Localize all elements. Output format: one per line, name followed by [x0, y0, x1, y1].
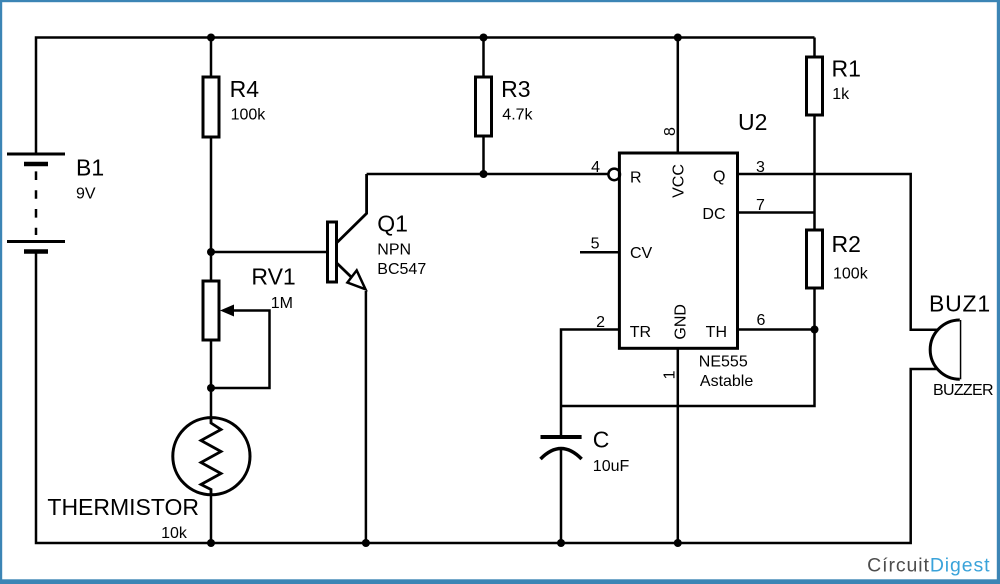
svg-text:100k: 100k — [833, 266, 869, 283]
transistor Q1 — [328, 222, 337, 282]
pin4 bubble — [608, 169, 620, 181]
potentiometer RV1 — [203, 281, 219, 340]
op-amp U2 IC box — [619, 153, 737, 348]
wire base of Q1 — [211, 251, 328, 254]
svg-text:4.7k: 4.7k — [502, 106, 533, 123]
node dot emitter bottom — [362, 539, 370, 547]
svg-text:Astable: Astable — [700, 373, 753, 390]
wire R4 bottom through node to RV1 — [210, 137, 213, 281]
svg-text:100k: 100k — [231, 107, 267, 124]
wire pin3 Q to buzzer — [738, 174, 939, 330]
wire pin6 TH — [738, 328, 815, 331]
svg-text:5: 5 — [591, 236, 600, 253]
wire R2 bottom to TR net — [561, 288, 815, 406]
wiper arrowhead — [220, 305, 234, 317]
svg-text:GND: GND — [673, 304, 690, 340]
svg-text:U2: U2 — [738, 109, 767, 135]
svg-text:1M: 1M — [271, 295, 293, 312]
node dot gnd bottom — [674, 539, 682, 547]
wire pin5 stub — [580, 251, 619, 254]
svg-text:1k: 1k — [832, 86, 850, 103]
wire R1 to R2 — [813, 115, 816, 230]
svg-text:R: R — [630, 169, 642, 186]
svg-text:1: 1 — [661, 370, 678, 379]
resistor R2 — [807, 230, 823, 288]
node dot pin6 R2 — [811, 326, 819, 334]
svg-text:CV: CV — [630, 245, 653, 262]
capacitor C — [541, 435, 582, 439]
svg-text:THERMISTOR: THERMISTOR — [47, 494, 199, 520]
svg-text:2: 2 — [596, 314, 605, 331]
svg-text:Q: Q — [713, 169, 725, 186]
wire top rail with left drop — [36, 38, 815, 155]
node dot top R4 — [207, 34, 215, 42]
thermistor — [173, 418, 250, 495]
wire thermistor bottom — [210, 495, 213, 544]
resistor R3 — [476, 77, 492, 136]
svg-text:7: 7 — [756, 197, 765, 214]
wire R4 top — [210, 38, 213, 78]
wire VCC pin8 drop — [677, 38, 680, 154]
svg-text:B1: B1 — [76, 154, 104, 180]
emitter arrowhead — [347, 270, 365, 289]
svg-text:NPN: NPN — [377, 242, 411, 259]
svg-text:TR: TR — [630, 324, 651, 341]
wire R3 top — [482, 38, 485, 78]
wire RV1 wiper loop — [211, 311, 270, 389]
resistor R1 — [807, 57, 823, 115]
node dot R3 bottom — [480, 170, 488, 178]
wire pin7 DC — [738, 211, 815, 214]
wire cap bottom — [560, 450, 563, 543]
svg-text:6: 6 — [757, 312, 766, 329]
node dot base — [207, 248, 215, 256]
svg-text:BUZZER: BUZZER — [933, 382, 993, 399]
svg-text:R1: R1 — [832, 56, 861, 82]
svg-text:10k: 10k — [161, 525, 188, 542]
resistor R4 — [203, 77, 219, 137]
svg-text:3: 3 — [756, 159, 765, 176]
svg-text:8: 8 — [662, 127, 679, 136]
node dot top R3 — [480, 34, 488, 42]
wire R3 bottom — [482, 136, 485, 174]
svg-text:9V: 9V — [76, 185, 96, 202]
svg-text:NE555: NE555 — [699, 354, 748, 371]
svg-text:BUZ1: BUZ1 — [929, 291, 991, 317]
svg-text:Q1: Q1 — [377, 210, 408, 236]
wire Q1 collector — [337, 174, 367, 243]
svg-text:BC547: BC547 — [377, 261, 426, 278]
wire Q1 emitter — [337, 263, 360, 285]
wire battery bottom to bottom rail and bottom rail to buzzer — [36, 252, 938, 544]
blue frame border — [0, 0, 1000, 2]
node dot thermistor bottom — [207, 539, 215, 547]
svg-text:C: C — [593, 427, 610, 453]
wire RV1 bottom to thermistor — [210, 340, 213, 418]
wire pin2 TR to cap — [561, 330, 619, 438]
svg-text:TH: TH — [706, 324, 727, 341]
wire emitter down — [365, 291, 368, 543]
svg-text:R4: R4 — [230, 76, 260, 102]
svg-text:CírcuitDigest: CírcuitDigest — [867, 555, 990, 577]
buzzer BUZ1 — [958, 320, 961, 379]
svg-text:VCC: VCC — [671, 164, 688, 198]
svg-text:RV1: RV1 — [251, 263, 295, 289]
svg-text:R2: R2 — [832, 231, 861, 257]
wire R1 top — [813, 38, 816, 58]
battery B1 — [7, 154, 65, 252]
svg-text:4: 4 — [591, 159, 600, 176]
wire GND pin1 drop — [677, 348, 680, 543]
wire reset net to pin4 — [367, 173, 608, 176]
node dot top VCC — [674, 34, 682, 42]
node dot wiper bottom — [207, 384, 215, 392]
svg-text:R3: R3 — [501, 76, 530, 102]
svg-text:DC: DC — [702, 206, 725, 223]
svg-text:10uF: 10uF — [593, 458, 630, 475]
node dot cap bottom — [557, 539, 565, 547]
